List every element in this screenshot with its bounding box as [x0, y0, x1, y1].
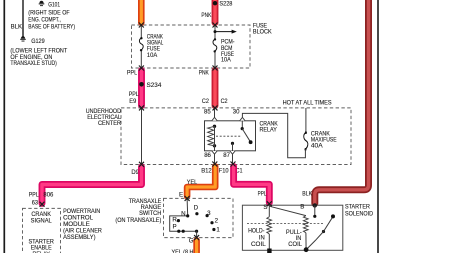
svg-text:RELAY: RELAY: [260, 127, 277, 134]
splice S234: [139, 82, 144, 87]
svg-text:E: E: [179, 192, 183, 199]
svg-text:(RIGHT SIDE OF: (RIGHT SIDE OF: [28, 9, 70, 16]
terminal B dot: [313, 203, 317, 207]
terminal 85 triangle: [212, 117, 217, 120]
crank relay box: [205, 121, 256, 151]
crank maxifuse feed line: [305, 108, 307, 133]
svg-text:B: B: [300, 204, 304, 211]
pcm-bcm fuse lead: [214, 25, 216, 39]
svg-text:86: 86: [204, 152, 211, 159]
wire PNK from S228 into fuse block: [212, 0, 219, 23]
svg-text:HOT AT ALL TIMES: HOT AT ALL TIMES: [283, 99, 332, 106]
svg-text:BASE OF BATTERY): BASE OF BATTERY): [28, 23, 75, 30]
svg-text:PPL: PPL: [258, 190, 267, 197]
contact D: [195, 212, 198, 215]
ground G101: [39, 1, 45, 6]
svg-text:85: 85: [204, 108, 211, 115]
wire BLK to ground G129: [22, 0, 24, 38]
svg-text:30: 30: [233, 108, 240, 115]
hold-in coil lead from S: [268, 205, 270, 217]
connector X F10/C1 at UEC bottom: [231, 162, 236, 167]
svg-text:PPL: PPL: [127, 69, 138, 76]
fuse crank signal 10A: [139, 37, 143, 51]
wire PPL D9 to PCM 63: [42, 167, 142, 203]
linkage dashed: [247, 223, 324, 225]
connector X E9 at UEC top: [139, 105, 144, 110]
blade to motor junction: [306, 232, 323, 250]
connector X at fuse block top (crank signal fuse): [139, 23, 144, 28]
coil straight lead: [214, 126, 216, 146]
svg-text:63: 63: [32, 199, 39, 206]
svg-text:PPL: PPL: [29, 192, 39, 199]
svg-text:S234: S234: [147, 82, 162, 89]
svg-text:2: 2: [215, 218, 219, 225]
svg-text:G: G: [189, 238, 194, 245]
svg-text:CENTER: CENTER: [98, 120, 121, 127]
switch bracket: [170, 216, 197, 231]
svg-text:G129: G129: [31, 38, 45, 45]
svg-text:S228: S228: [219, 1, 233, 8]
svg-text:YEL: YEL: [187, 179, 198, 186]
lead 87 to UEC edge: [232, 154, 234, 165]
svg-text:E9: E9: [129, 98, 137, 105]
lead E9 to D9 through UEC: [141, 108, 143, 165]
svg-text:3: 3: [207, 210, 211, 217]
svg-text:P: P: [173, 223, 177, 230]
svg-text:STARTER: STARTER: [345, 203, 370, 210]
connector X at E: [185, 196, 190, 201]
pull-in coil: [303, 216, 308, 233]
svg-text:10A: 10A: [221, 57, 232, 64]
wire YEL from G: [193, 240, 200, 253]
connector X B12 at UEC bottom: [212, 162, 217, 167]
maxifuse out to relay 30: [242, 113, 305, 157]
svg-text:YEL (8 H: YEL (8 H: [172, 249, 194, 253]
starter solenoid box: [242, 205, 342, 250]
svg-text:BLK: BLK: [302, 191, 312, 198]
switch E lead to N: [186, 198, 189, 216]
svg-text:COIL: COIL: [251, 241, 266, 248]
svg-text:D: D: [194, 205, 199, 212]
solenoid switch blade: [322, 230, 325, 233]
motor junction dot: [304, 247, 309, 252]
B contact lead: [314, 205, 316, 216]
terminal 87 triangle: [230, 151, 235, 154]
svg-text:SIGNAL: SIGNAL: [31, 218, 53, 225]
connector X at PCM 63: [40, 202, 45, 207]
wire PPL fuse block to UEC E9: [138, 71, 145, 106]
svg-text:C2: C2: [202, 98, 209, 105]
wire PPL F10/C1 to solenoid S: [234, 167, 270, 203]
svg-text:F10: F10: [219, 168, 229, 175]
fuse block box: [132, 25, 251, 68]
underhood electrical center box: [121, 108, 351, 165]
contact R: [177, 219, 180, 222]
pull-in to motor lead: [305, 233, 307, 250]
coil lead to 86 terminal: [214, 146, 216, 151]
svg-text:ASSEMBLY): ASSEMBLY): [63, 234, 95, 241]
connector X at fuse block bottom right: [213, 66, 218, 71]
crank signal fuse lead: [140, 25, 142, 38]
connector X at fuse block top (pcm-bcm fuse): [213, 23, 218, 28]
svg-text:B12: B12: [201, 168, 212, 175]
fuse crank maxifuse 40A: [304, 131, 308, 151]
branch arrow to other circuits: [214, 30, 217, 33]
svg-text:PNK: PNK: [199, 69, 210, 76]
wire YEL into crank signal fuse: [138, 0, 145, 23]
svg-text:(ON TRANSAXLE): (ON TRANSAXLE): [115, 217, 161, 224]
svg-text:ENG. COMPT.,: ENG. COMPT.,: [28, 16, 61, 23]
splice S228: [213, 1, 217, 5]
fuse PCM-BCM 10A: [213, 38, 217, 52]
contact G output: [195, 230, 198, 233]
powertrain control module box: [23, 208, 61, 253]
svg-text:806: 806: [43, 192, 54, 199]
left page border line: [3, 0, 5, 253]
svg-text:C2: C2: [221, 98, 228, 105]
svg-text:SOLENOID: SOLENOID: [345, 211, 373, 218]
lead C2 to relay 85: [214, 108, 216, 118]
hold-in coil: [267, 217, 272, 234]
svg-text:S: S: [263, 204, 267, 211]
svg-text:COIL: COIL: [288, 241, 302, 248]
switch 30 lead: [241, 121, 243, 129]
transaxle range switch box: [164, 198, 234, 237]
contact 2: [210, 221, 213, 224]
svg-text:G101: G101: [48, 1, 60, 8]
contact 3: [206, 214, 209, 217]
terminal 86 triangle: [212, 151, 217, 154]
svg-text:40A: 40A: [311, 143, 324, 150]
svg-text:BLOCK: BLOCK: [253, 28, 273, 35]
switch blade: [242, 129, 250, 142]
lead 86 to UEC edge: [214, 154, 216, 165]
terminal 30 triangle: [240, 117, 245, 120]
linkage dashed: [216, 135, 241, 137]
contact 1: [212, 228, 215, 231]
wire PNK fuse block to UEC C2: [212, 71, 219, 106]
connector X at S: [267, 201, 272, 206]
svg-text:BLK: BLK: [11, 24, 23, 31]
connector X at fuse block bottom left: [139, 66, 144, 71]
pull-in feed diagonal from S: [269, 206, 306, 215]
svg-text:1: 1: [216, 227, 220, 234]
svg-text:10A: 10A: [147, 52, 158, 59]
svg-text:PNK: PNK: [201, 12, 212, 19]
contact P: [177, 230, 180, 233]
connector X C2 at UEC top: [213, 105, 218, 110]
connector X at G: [194, 235, 199, 240]
svg-text:N: N: [181, 210, 185, 217]
hold-in ground lead: [268, 234, 270, 250]
contact 87: [231, 142, 234, 145]
connector X D9 at UEC bottom: [139, 162, 144, 167]
ground G129: [20, 36, 26, 41]
svg-text:87: 87: [223, 152, 230, 159]
svg-text:TRANSAXLE STUD): TRANSAXLE STUD): [10, 60, 56, 67]
contact N: [186, 214, 189, 217]
wire YEL B12 to range switch E: [187, 167, 215, 197]
right page border line: [377, 0, 379, 253]
wire RED battery feed to solenoid B: [315, 0, 369, 203]
relay coil: [213, 125, 216, 128]
